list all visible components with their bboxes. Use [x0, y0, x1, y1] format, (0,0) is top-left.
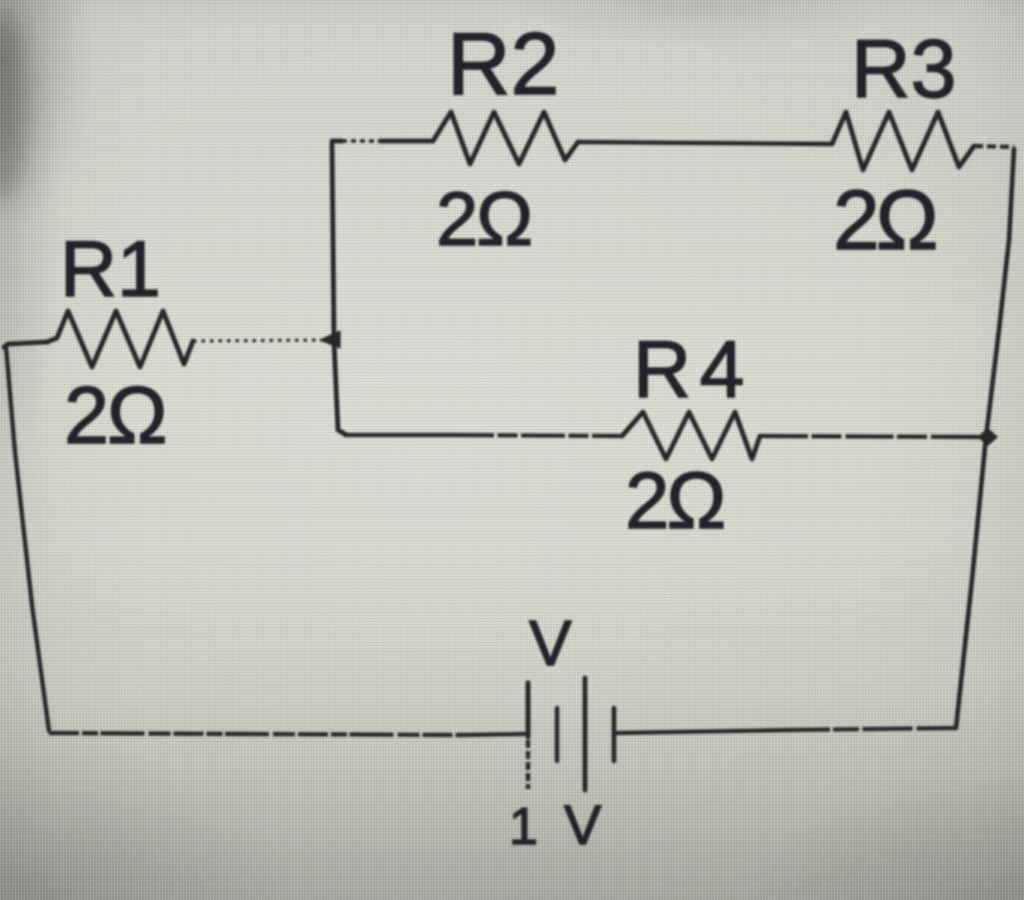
wire middle corner to R4 [345, 433, 450, 437]
svg-text:V: V [529, 607, 572, 679]
resistor R3 [832, 112, 974, 170]
wire R2 to R3 [578, 142, 832, 144]
resistor R2 [433, 112, 578, 164]
wire top-left corner to R2 [332, 139, 342, 144]
resistor R4 [622, 412, 760, 459]
wire R4 to node B [760, 436, 980, 437]
svg-text:R3: R3 [851, 23, 956, 115]
node B junction arrow [978, 429, 997, 445]
battery V plate long inner-right [583, 678, 588, 790]
svg-text:2Ω: 2Ω [833, 173, 936, 267]
svg-text:R4: R4 [633, 325, 753, 415]
svg-text:R2: R2 [447, 14, 560, 113]
svg-text:2Ω: 2Ω [625, 456, 723, 545]
battery V plate long left [526, 683, 531, 737]
wire left edge to R1 [4, 342, 47, 347]
wire left side vertical [6, 347, 49, 731]
wire R3 to top-right corner [974, 146, 1014, 147]
battery V plate short right [612, 708, 617, 761]
wire battery to bottom-right corner [617, 730, 790, 733]
battery V plate short inner-left [555, 708, 559, 761]
wire R1 to node A (dotted) [193, 340, 334, 341]
svg-text:R1: R1 [60, 224, 161, 313]
svg-text:V: V [564, 793, 602, 856]
svg-text:2Ω: 2Ω [436, 177, 531, 262]
wire bottom left to battery [49, 733, 460, 735]
svg-text:1: 1 [509, 798, 538, 856]
svg-text:2Ω: 2Ω [64, 371, 166, 461]
wire node A up to top-left corner [332, 144, 334, 338]
wire right side vertical [956, 149, 1014, 728]
wire node A down to middle corner [334, 342, 345, 434]
resistor R1 [47, 311, 193, 367]
node A junction dot [320, 331, 340, 348]
